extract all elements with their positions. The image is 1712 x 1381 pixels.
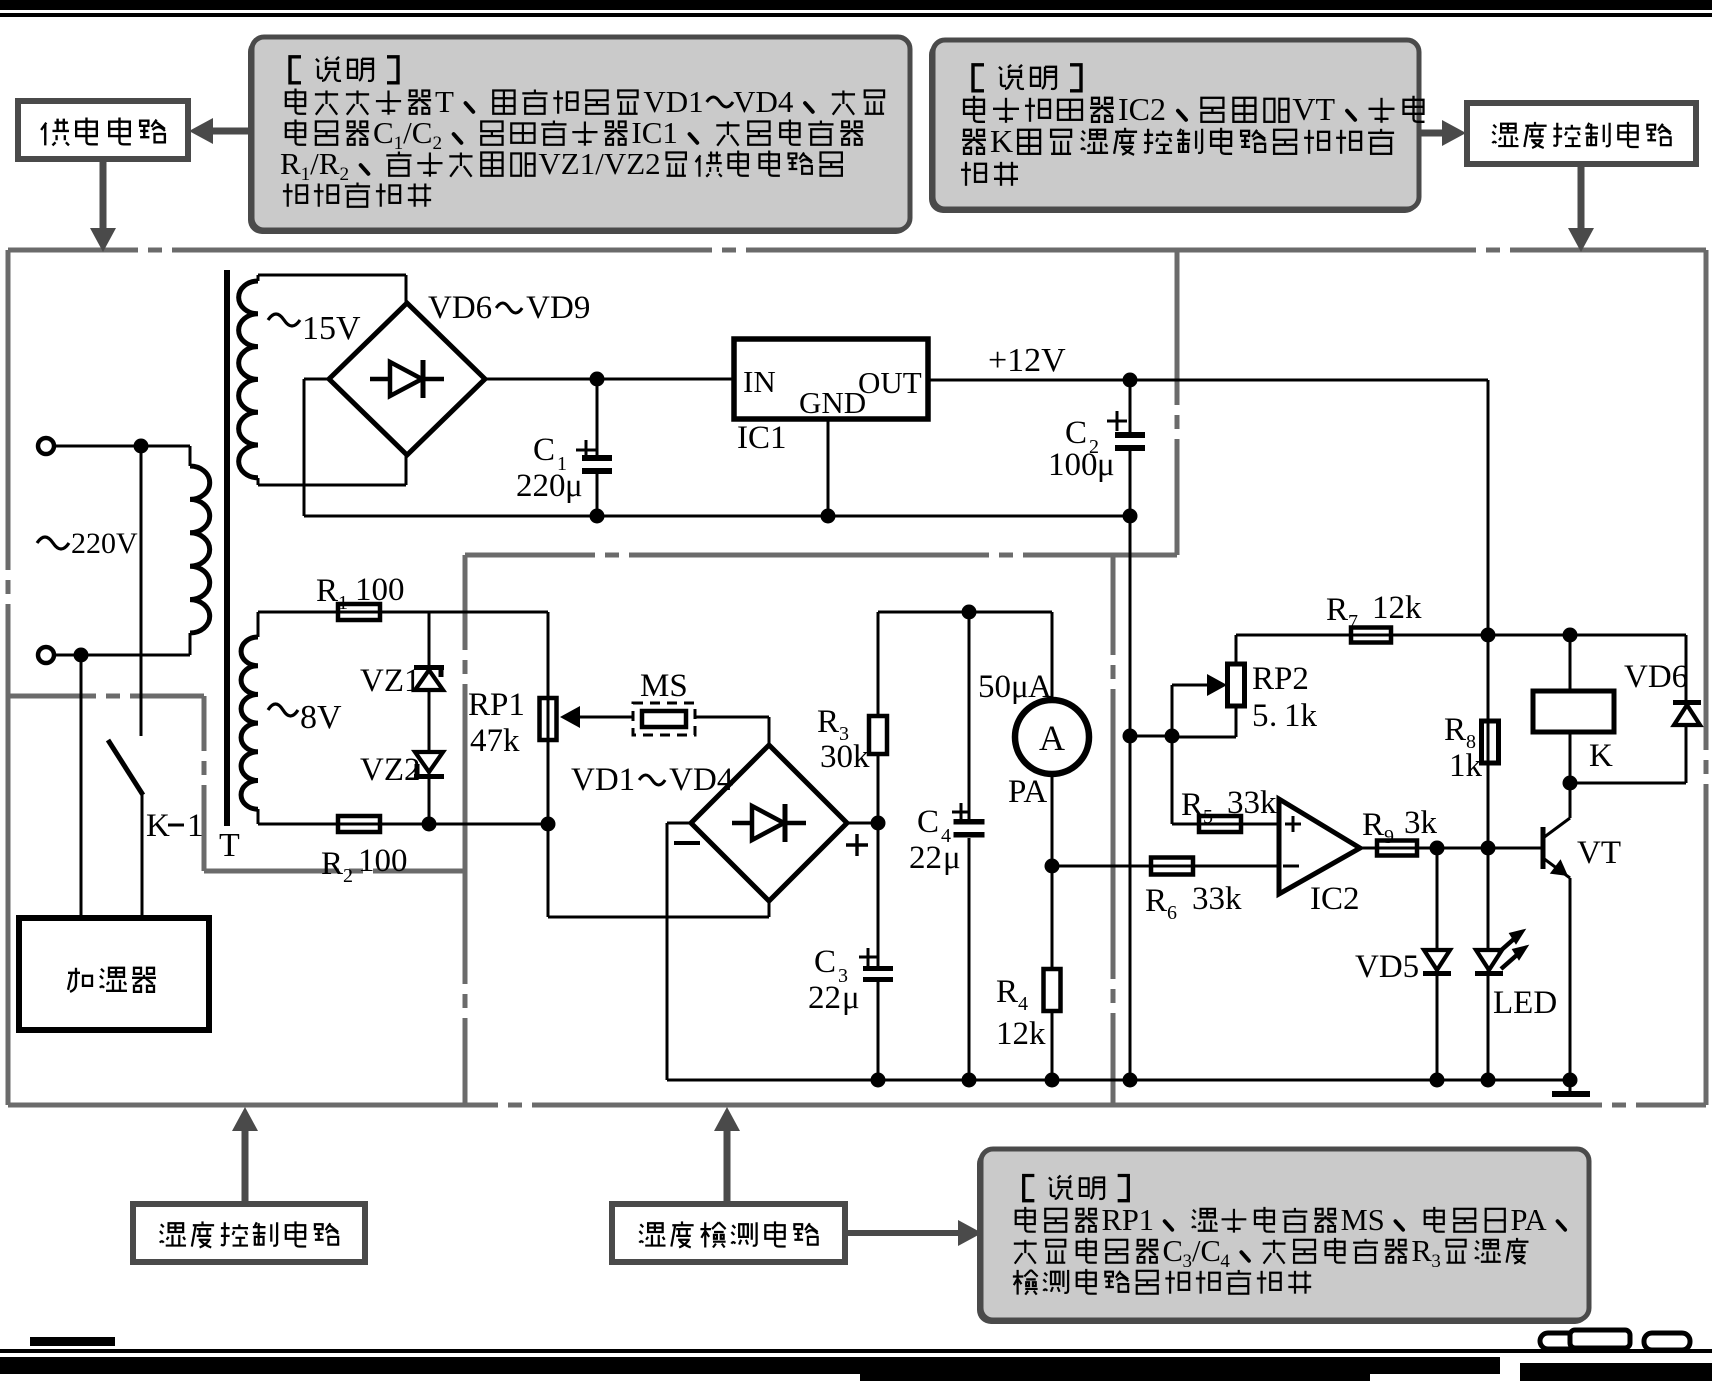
svg-text:3: 3	[1183, 1251, 1192, 1272]
svg-text:C: C	[1163, 1234, 1183, 1268]
svg-text:2: 2	[343, 865, 353, 887]
svg-text:C: C	[1065, 415, 1087, 451]
svg-text:22: 22	[808, 980, 841, 1016]
svg-text:30k: 30k	[820, 739, 870, 775]
svg-text:VD6: VD6	[1624, 659, 1688, 695]
svg-text:1: 1	[338, 592, 348, 614]
svg-text:OUT: OUT	[858, 365, 922, 400]
svg-text:4: 4	[1220, 1251, 1230, 1272]
svg-text:47k: 47k	[470, 723, 520, 759]
svg-text:+12V: +12V	[988, 342, 1066, 379]
svg-text:VT: VT	[1577, 835, 1621, 871]
svg-text:μ: μ	[1097, 447, 1115, 483]
svg-text:RP2: RP2	[1252, 661, 1309, 697]
svg-text:IC2: IC2	[1310, 881, 1360, 917]
svg-text:R: R	[817, 704, 839, 740]
svg-text:VD1: VD1	[571, 762, 635, 798]
svg-text:2: 2	[432, 133, 442, 154]
svg-text:μ: μ	[842, 980, 860, 1016]
svg-text:MS: MS	[1341, 1203, 1385, 1237]
svg-text:5: 5	[1203, 806, 1213, 828]
svg-text:6: 6	[1167, 902, 1177, 924]
svg-text:1k: 1k	[1449, 748, 1483, 784]
svg-text:VD1: VD1	[643, 84, 703, 119]
svg-text:VZ2: VZ2	[360, 752, 421, 788]
svg-text:1: 1	[394, 133, 404, 154]
svg-text:IC2: IC2	[1118, 91, 1166, 127]
svg-text:/C: /C	[1192, 1234, 1221, 1268]
svg-text:100: 100	[358, 843, 408, 879]
svg-text:VZ1: VZ1	[360, 663, 421, 699]
svg-text:GND: GND	[799, 385, 866, 420]
svg-text:VD6: VD6	[428, 290, 492, 326]
svg-text:R: R	[1411, 1234, 1432, 1268]
svg-text:VD5: VD5	[1355, 949, 1419, 985]
svg-text:K: K	[1589, 738, 1613, 774]
svg-text:1: 1	[301, 164, 311, 185]
svg-text:R: R	[280, 146, 301, 181]
svg-text:220V: 220V	[71, 527, 138, 560]
svg-text:15V: 15V	[302, 310, 361, 347]
svg-text:33k: 33k	[1192, 881, 1242, 917]
svg-text:33k: 33k	[1227, 785, 1277, 821]
svg-text:VZ1/VZ2: VZ1/VZ2	[538, 146, 660, 181]
svg-text:K: K	[990, 123, 1013, 159]
svg-text:R: R	[1326, 592, 1348, 628]
svg-text:R: R	[996, 974, 1018, 1010]
svg-text:22: 22	[909, 840, 942, 876]
svg-text:C: C	[373, 115, 394, 150]
svg-text:1: 1	[187, 808, 204, 844]
svg-text:12k: 12k	[996, 1016, 1046, 1052]
svg-text:/R: /R	[310, 146, 340, 181]
svg-text:50: 50	[978, 669, 1011, 705]
svg-text:RP1: RP1	[1102, 1203, 1155, 1237]
svg-text:IN: IN	[743, 364, 776, 399]
svg-text:μ: μ	[1011, 669, 1029, 705]
svg-text:A: A	[1028, 669, 1052, 705]
svg-text:VD4: VD4	[669, 762, 733, 798]
svg-text:9: 9	[1384, 826, 1394, 848]
svg-text:A: A	[1039, 718, 1065, 758]
svg-text:220: 220	[516, 468, 566, 504]
svg-text:C: C	[814, 944, 836, 980]
svg-text:R: R	[321, 846, 343, 882]
svg-text:5: 5	[1252, 698, 1269, 734]
svg-text:PA: PA	[1008, 774, 1047, 810]
svg-text:R: R	[1181, 787, 1203, 823]
svg-text:R: R	[1145, 883, 1167, 919]
svg-text:7: 7	[1348, 611, 1358, 633]
svg-text:12k: 12k	[1372, 590, 1422, 626]
svg-text:3: 3	[1431, 1251, 1440, 1272]
svg-text:μ: μ	[565, 468, 583, 504]
svg-text:R: R	[1444, 712, 1466, 748]
svg-text:T: T	[435, 84, 454, 119]
svg-text:3k: 3k	[1404, 805, 1438, 841]
svg-text:4: 4	[1018, 993, 1028, 1015]
svg-text:PA: PA	[1511, 1203, 1547, 1237]
svg-text:R: R	[316, 573, 338, 609]
svg-text:T: T	[219, 827, 240, 864]
svg-text:1k: 1k	[1284, 698, 1318, 734]
svg-text:C: C	[917, 804, 939, 840]
svg-text:C: C	[533, 432, 555, 468]
svg-text:.: .	[1269, 698, 1277, 734]
svg-text:8V: 8V	[300, 699, 342, 736]
svg-text:μ: μ	[943, 840, 961, 876]
svg-text:VD9: VD9	[526, 290, 590, 326]
svg-text:K: K	[146, 808, 170, 844]
svg-text:/C: /C	[403, 115, 432, 150]
svg-text:R: R	[1362, 807, 1384, 843]
svg-text:RP1: RP1	[468, 687, 525, 723]
svg-text:IC1: IC1	[737, 420, 787, 456]
svg-text:100: 100	[355, 572, 405, 608]
svg-text:VD4: VD4	[733, 84, 794, 119]
svg-text:2: 2	[339, 164, 349, 185]
svg-text:LED: LED	[1493, 985, 1557, 1021]
svg-text:100: 100	[1048, 447, 1098, 483]
svg-text:IC1: IC1	[631, 115, 678, 150]
svg-text:VT: VT	[1292, 91, 1335, 127]
svg-text:MS: MS	[640, 668, 688, 704]
